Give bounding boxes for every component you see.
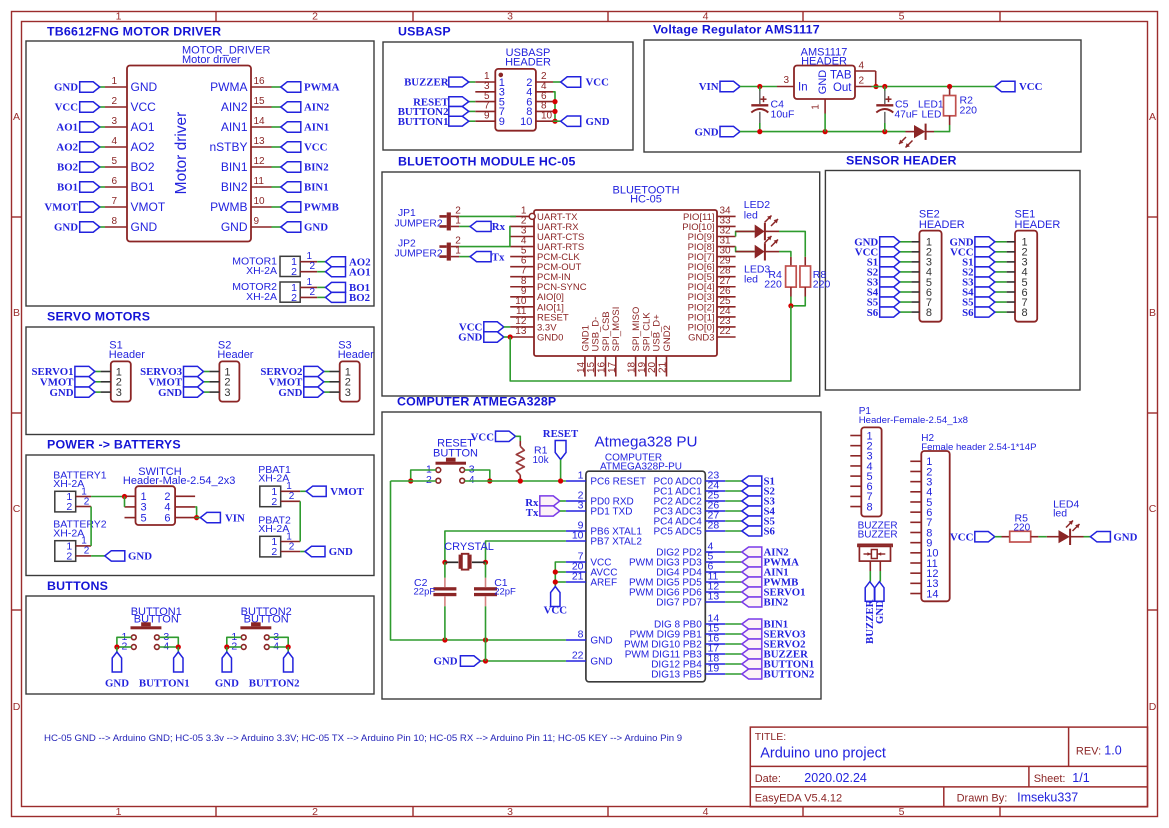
- junction: [224, 644, 229, 649]
- svg-text:BUTTON1: BUTTON1: [398, 116, 449, 128]
- svg-text:BUZZER: BUZZER: [858, 530, 898, 541]
- connector PBAT1 XH-2A: [258, 464, 300, 508]
- wire reset button pins 3-4: [465, 470, 490, 481]
- svg-text:XH-2A: XH-2A: [246, 291, 277, 303]
- port AIN1: [281, 122, 329, 134]
- svg-text:1.0: 1.0: [1104, 744, 1121, 758]
- wire VCC AVCC AREF bus: [555, 562, 566, 587]
- wire S4: [900, 291, 912, 293]
- connector MOTOR1 XH-2A: [232, 251, 317, 278]
- port AIN1: [742, 567, 789, 579]
- port PWMB: [742, 577, 798, 589]
- port GND: [54, 82, 100, 94]
- port BO1: [326, 282, 371, 294]
- svg-text:VMOT: VMOT: [131, 200, 166, 214]
- svg-text:SERVO MOTORS: SERVO MOTORS: [47, 310, 150, 324]
- svg-text:led: led: [744, 274, 758, 286]
- wire S5: [900, 301, 912, 303]
- port VIN: [699, 81, 740, 93]
- wire AIN1: [725, 571, 742, 573]
- svg-text:GND: GND: [590, 657, 612, 668]
- port GND: [278, 387, 323, 399]
- wire to BUTTON1 port: [177, 647, 179, 652]
- svg-text:VCC: VCC: [586, 77, 609, 89]
- svg-text:DIG7 PD7: DIG7 PD7: [656, 598, 702, 609]
- svg-text:VCC: VCC: [304, 142, 327, 154]
- svg-text:AO1: AO1: [131, 120, 155, 134]
- svg-text:GND: GND: [54, 222, 78, 234]
- port BUTTON1: [139, 652, 190, 690]
- svg-text:19: 19: [708, 663, 720, 675]
- push button BUTTON1 BUTTON: [121, 606, 181, 653]
- wire Rx: [560, 500, 566, 502]
- wire GND: [204, 391, 210, 393]
- svg-text:3: 3: [224, 387, 230, 399]
- svg-text:10uF: 10uF: [771, 109, 795, 121]
- junction: [518, 478, 523, 483]
- svg-text:VCC: VCC: [131, 100, 157, 114]
- LED LED3: [736, 236, 779, 286]
- svg-text:COMPUTER ATMEGA328P: COMPUTER ATMEGA328P: [397, 395, 556, 409]
- svg-text:11: 11: [254, 176, 265, 187]
- svg-text:AREF: AREF: [590, 578, 617, 589]
- port S3: [742, 496, 776, 508]
- svg-text:GND: GND: [695, 126, 719, 138]
- wire S6: [995, 311, 1007, 313]
- svg-text:VCC: VCC: [471, 432, 494, 444]
- svg-text:EasyEDA V5.4.12: EasyEDA V5.4.12: [755, 793, 842, 805]
- wire AIN2: [725, 551, 742, 553]
- port S2: [962, 267, 995, 279]
- wire SERVO2: [324, 371, 330, 373]
- frame row letters right: [1149, 111, 1157, 713]
- connector PBAT2 XH-2A: [258, 514, 300, 558]
- svg-text:5: 5: [899, 11, 905, 23]
- svg-text:HEADER: HEADER: [505, 56, 551, 68]
- wire pin5: [100, 166, 105, 168]
- port AIN2: [281, 102, 329, 114]
- svg-text:9: 9: [254, 216, 260, 227]
- wire reset net left rail: [391, 481, 566, 640]
- wire pin13: [272, 146, 281, 148]
- svg-text:Header: Header: [217, 349, 253, 361]
- wire: [555, 571, 566, 573]
- wire TAB to Out: [875, 71, 877, 87]
- wire reset row right: [465, 480, 566, 482]
- port AIN2: [742, 547, 789, 559]
- svg-text:2: 2: [84, 496, 90, 507]
- junction: [552, 109, 557, 114]
- section box USBASP: [383, 25, 633, 151]
- svg-text:In: In: [798, 81, 808, 93]
- svg-text:PWMA: PWMA: [304, 82, 340, 94]
- svg-text:Header-Female-2.54_1x8: Header-Female-2.54_1x8: [859, 415, 968, 426]
- wire RESET: [469, 101, 476, 103]
- wire RESET port to pin1: [560, 460, 562, 482]
- svg-text:Out: Out: [833, 82, 852, 94]
- wire VCC: [553, 81, 561, 83]
- port BO2: [57, 162, 100, 174]
- svg-text:D: D: [1149, 701, 1157, 713]
- microcontroller U4 ATMEGA328P-PU: [566, 434, 725, 682]
- svg-text:PD1 TXD: PD1 TXD: [590, 507, 632, 518]
- svg-text:Motor driver: Motor driver: [173, 112, 190, 195]
- LED LED4: [1047, 498, 1084, 545]
- svg-text:3: 3: [783, 75, 789, 86]
- junction: [483, 560, 488, 565]
- wire VIN to In: [740, 86, 777, 88]
- wire R4 R8 to GND0 return: [791, 297, 805, 306]
- svg-text:Atmega328 PU: Atmega328 PU: [595, 434, 698, 451]
- regulator U2 AMS1117 HEADER: [777, 46, 876, 113]
- port Tx: [470, 251, 505, 263]
- wire pin2: [100, 106, 105, 108]
- wire return to GND0: [510, 306, 791, 381]
- wire pin15: [272, 106, 281, 108]
- svg-text:2: 2: [312, 11, 318, 23]
- junction: [487, 478, 492, 483]
- wire JP2.2 to UART-RX: [459, 226, 510, 246]
- svg-text:BIN1: BIN1: [221, 160, 248, 174]
- wire S1: [725, 480, 742, 482]
- frame row ticks right: [1148, 217, 1158, 610]
- svg-text:10: 10: [572, 530, 584, 542]
- port BUTTON1: [742, 659, 815, 671]
- svg-text:REV:: REV:: [1076, 746, 1101, 758]
- wire to BUTTON2 port: [287, 647, 289, 652]
- svg-text:2: 2: [310, 287, 316, 298]
- svg-text:13: 13: [254, 136, 266, 147]
- svg-text:12: 12: [254, 156, 266, 167]
- svg-text:8: 8: [1022, 307, 1028, 319]
- svg-text:PWMA: PWMA: [210, 80, 247, 94]
- port BIN1: [742, 619, 788, 631]
- port RESET: [543, 428, 579, 460]
- svg-text:GND0: GND0: [537, 332, 563, 343]
- svg-text:2: 2: [289, 491, 295, 502]
- port GND: [158, 387, 203, 399]
- svg-text:2: 2: [291, 266, 297, 278]
- junction: [176, 644, 181, 649]
- svg-text:1: 1: [116, 11, 122, 23]
- port VMOT: [44, 202, 99, 214]
- junction: [558, 478, 563, 483]
- svg-text:GND: GND: [131, 220, 158, 234]
- section box SENSOR HEADER: [825, 154, 1080, 391]
- port VCC: [471, 431, 516, 443]
- svg-text:S6: S6: [867, 307, 879, 319]
- wire S2: [995, 271, 1007, 273]
- svg-text:AO1: AO1: [349, 266, 371, 278]
- port VMOT: [40, 377, 95, 389]
- svg-text:POWER -> BATTERYS: POWER -> BATTERYS: [47, 438, 181, 452]
- port GND: [561, 116, 610, 128]
- wire VMOT: [204, 381, 210, 383]
- port SERVO3: [742, 629, 806, 641]
- section box POWER -> BATTERYS: [26, 438, 374, 576]
- wire S3: [725, 500, 742, 502]
- wire: [269, 646, 288, 648]
- port VMOT: [306, 486, 364, 498]
- svg-text:A: A: [1149, 111, 1156, 123]
- wire S3: [995, 281, 1007, 283]
- port S3: [867, 277, 900, 289]
- svg-text:TAB: TAB: [830, 70, 852, 82]
- wire BUTTON1: [469, 120, 476, 122]
- svg-text:HEADER: HEADER: [1015, 219, 1061, 231]
- svg-text:GND: GND: [874, 600, 886, 624]
- svg-text:BIN2: BIN2: [764, 597, 789, 609]
- wire JP2.1 to Tx: [459, 256, 470, 258]
- frame row ticks left: [12, 217, 22, 610]
- svg-text:1: 1: [116, 806, 122, 818]
- svg-text:GND: GND: [329, 546, 353, 558]
- svg-text:10: 10: [541, 110, 553, 121]
- port GND: [105, 551, 152, 563]
- frame column ticks bottom: [216, 807, 1000, 817]
- port VCC: [281, 142, 328, 154]
- header S2: [209, 340, 254, 402]
- svg-text:16: 16: [254, 76, 266, 87]
- wire BUTTON2 pins 3-4: [269, 637, 288, 647]
- wire S4: [725, 510, 742, 512]
- wire S3: [900, 281, 912, 283]
- svg-text:B: B: [1149, 307, 1156, 319]
- svg-text:7: 7: [111, 196, 117, 207]
- wire pin1: [100, 86, 105, 88]
- junction: [882, 129, 887, 134]
- wire C1 bottom to GND: [485, 640, 487, 661]
- wire VCC: [900, 251, 912, 253]
- wire pin14: [272, 126, 281, 128]
- wire SW1.1 to SW1.3: [124, 497, 126, 507]
- junction: [882, 84, 887, 89]
- svg-text:SENSOR HEADER: SENSOR HEADER: [846, 154, 957, 168]
- wire BUTTON1: [725, 663, 742, 665]
- svg-text:GND2: GND2: [662, 325, 673, 351]
- svg-text:GND: GND: [278, 387, 302, 399]
- svg-text:VCC: VCC: [544, 605, 567, 617]
- svg-text:5: 5: [899, 806, 905, 818]
- port GND: [105, 652, 129, 690]
- svg-text:13: 13: [708, 591, 720, 603]
- svg-text:14: 14: [926, 588, 938, 600]
- svg-text:GND: GND: [817, 70, 829, 95]
- svg-text:TITLE:: TITLE:: [755, 731, 787, 743]
- svg-text:2020.02.24: 2020.02.24: [804, 771, 867, 785]
- LED LED2: [736, 199, 779, 240]
- svg-text:8: 8: [111, 216, 117, 227]
- wire pin31 to LED3: [736, 247, 755, 252]
- svg-text:PWMB: PWMB: [210, 200, 247, 214]
- wire VCC to R1: [516, 436, 521, 441]
- svg-text:VCC: VCC: [55, 102, 78, 114]
- header SE1: [1007, 209, 1061, 322]
- svg-text:C: C: [1149, 503, 1157, 515]
- port BUTTON2: [398, 106, 469, 118]
- svg-text:D: D: [13, 701, 21, 713]
- svg-text:22: 22: [720, 326, 732, 337]
- port VMOT: [149, 377, 204, 389]
- port SERVO2: [260, 366, 323, 378]
- svg-text:VIN: VIN: [225, 512, 245, 524]
- svg-text:Arduino uno project: Arduino uno project: [760, 746, 886, 762]
- wire VCC to 3.3V: [504, 326, 510, 328]
- push button BUTTON2 BUTTON: [231, 606, 291, 653]
- junction: [508, 334, 513, 339]
- svg-text:A: A: [13, 111, 20, 123]
- wire S1: [900, 261, 912, 263]
- resistor R5 220: [1002, 512, 1039, 542]
- svg-text:9: 9: [484, 110, 490, 121]
- svg-text:GND: GND: [105, 678, 129, 690]
- port S2: [867, 267, 900, 279]
- svg-text:8: 8: [926, 307, 932, 319]
- svg-text:10k: 10k: [533, 455, 550, 466]
- wire reset row left: [391, 480, 436, 482]
- wire JP1.1 to Rx: [459, 225, 470, 227]
- svg-text:VMOT: VMOT: [44, 202, 78, 214]
- frame row letters left: [13, 111, 21, 713]
- svg-text:3: 3: [116, 387, 122, 399]
- svg-text:VCC: VCC: [950, 531, 973, 543]
- svg-text:47uF: 47uF: [895, 110, 918, 121]
- svg-text:AO1: AO1: [56, 122, 78, 134]
- svg-text:LED: LED: [922, 110, 942, 121]
- svg-text:BO2: BO2: [57, 162, 78, 174]
- wire pin4: [100, 146, 105, 148]
- junction: [553, 579, 558, 584]
- wire pin9: [272, 226, 281, 228]
- svg-text:XH-2A: XH-2A: [53, 527, 84, 539]
- svg-text:GND: GND: [458, 332, 482, 344]
- svg-text:BUZZER: BUZZER: [404, 77, 449, 89]
- wire to GND port: [226, 647, 228, 652]
- junction: [757, 84, 762, 89]
- svg-text:Imseku337: Imseku337: [1017, 791, 1078, 805]
- title block: [750, 727, 1147, 807]
- svg-text:CRYSTAL: CRYSTAL: [444, 541, 494, 553]
- svg-text:VCC: VCC: [1019, 81, 1042, 93]
- port S5: [962, 297, 995, 309]
- wire SERVO2: [725, 643, 742, 645]
- wire S5: [995, 301, 1007, 303]
- title field Sheet: [1034, 771, 1090, 785]
- port SERVO1: [31, 366, 94, 378]
- wire regulator GND pin to rail: [824, 114, 826, 132]
- port S1: [962, 257, 995, 269]
- svg-text:BO1: BO1: [131, 180, 155, 194]
- port GND: [458, 332, 504, 344]
- svg-text:BLUETOOTH MODULE HC-05: BLUETOOTH MODULE HC-05: [398, 155, 576, 169]
- port S6: [742, 526, 776, 538]
- LED LED1: [899, 100, 944, 148]
- svg-text:nSTBY: nSTBY: [209, 140, 247, 154]
- junction: [552, 119, 557, 124]
- port AO1: [56, 122, 99, 134]
- svg-text:GND: GND: [304, 222, 328, 234]
- svg-text:AIN1: AIN1: [221, 120, 248, 134]
- svg-text:21: 21: [572, 571, 584, 583]
- svg-text:AIN2: AIN2: [304, 102, 329, 114]
- svg-text:RESET: RESET: [543, 428, 579, 440]
- port GND: [874, 582, 886, 624]
- junction: [408, 478, 413, 483]
- svg-text:Date:: Date:: [755, 773, 781, 785]
- wire to GND port: [116, 647, 118, 652]
- wire pin16: [272, 86, 281, 88]
- svg-text:BUTTON: BUTTON: [244, 613, 289, 625]
- svg-text:6: 6: [164, 512, 170, 524]
- wire S5: [725, 520, 742, 522]
- svg-text:TB6612FNG MOTOR DRIVER: TB6612FNG MOTOR DRIVER: [47, 25, 221, 39]
- svg-text:2: 2: [66, 501, 72, 513]
- wire XTAL1: [445, 531, 566, 562]
- wire SERVO1: [725, 591, 742, 593]
- port GND: [434, 656, 481, 668]
- title field REV: [1076, 744, 1122, 758]
- section box TB6612FNG MOTOR DRIVER: [26, 25, 374, 307]
- port BUZZER: [404, 77, 469, 89]
- port VCC: [995, 81, 1042, 93]
- capacitor C5 47uF: [876, 87, 917, 132]
- wire: [555, 581, 566, 583]
- wire pin12: [272, 166, 281, 168]
- wire S6: [900, 311, 912, 313]
- svg-text:AO2: AO2: [131, 140, 155, 154]
- svg-text:220: 220: [764, 279, 782, 291]
- wire VCC to R5: [995, 536, 1002, 538]
- resistor R8 220: [800, 257, 831, 297]
- svg-text:220: 220: [960, 105, 978, 117]
- port BUZZER: [864, 582, 876, 644]
- junction: [873, 84, 878, 89]
- junction: [286, 644, 291, 649]
- svg-text:2: 2: [66, 550, 72, 562]
- svg-text:GND: GND: [50, 387, 74, 399]
- wire BUTTON1 pins 3-4: [159, 637, 178, 647]
- wire: [317, 271, 325, 273]
- header J1 USBASP: [475, 47, 553, 131]
- svg-text:XH-2A: XH-2A: [53, 478, 84, 490]
- svg-text:1: 1: [578, 470, 584, 482]
- wire GND: [324, 391, 330, 393]
- wire pin11: [272, 186, 281, 188]
- section box COMPUTER ATMEGA328P: [382, 395, 821, 700]
- frame column numbers top: [116, 11, 905, 23]
- port SERVO1: [742, 587, 806, 599]
- svg-text:BO1: BO1: [57, 182, 78, 194]
- port VCC: [855, 247, 900, 259]
- svg-text:SPI_MOSI: SPI_MOSI: [611, 307, 622, 352]
- port VMOT: [269, 377, 324, 389]
- wire BUZZER: [725, 653, 742, 655]
- wire BIN2: [725, 601, 742, 603]
- port S6: [962, 307, 995, 319]
- svg-text:Rx: Rx: [492, 221, 506, 233]
- svg-text:S6: S6: [764, 526, 776, 538]
- port GND: [695, 126, 741, 138]
- wire GND to GND0: [504, 336, 510, 338]
- title field Date: [755, 771, 867, 785]
- svg-text:Drawn By:: Drawn By:: [957, 793, 1008, 805]
- header P1 Header-Female-2.54_1x8: [850, 406, 968, 516]
- svg-text:Sheet:: Sheet:: [1034, 773, 1066, 785]
- svg-text:C: C: [13, 503, 21, 515]
- port GND: [215, 652, 239, 690]
- svg-text:5: 5: [141, 512, 147, 524]
- svg-text:Tx: Tx: [526, 507, 539, 519]
